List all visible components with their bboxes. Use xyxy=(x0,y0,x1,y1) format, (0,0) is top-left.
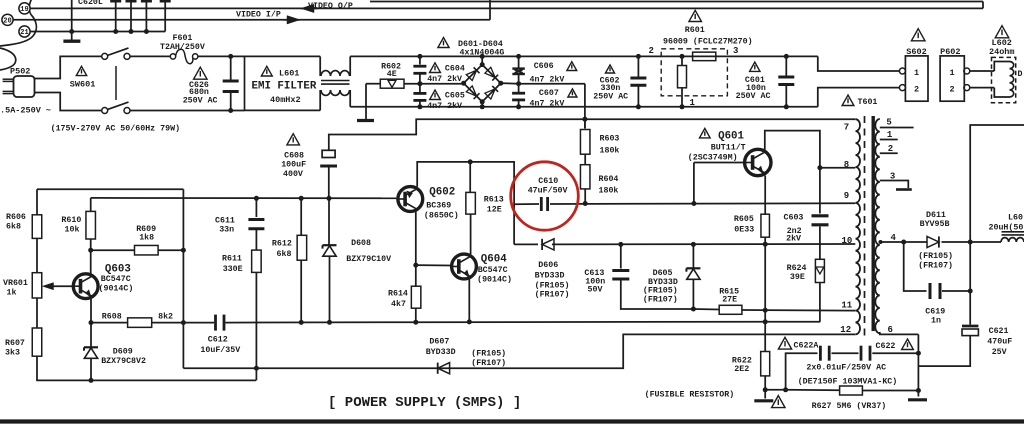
svg-text:C621: C621 xyxy=(989,327,1009,336)
svg-text:6k8: 6k8 xyxy=(277,249,292,259)
svg-text:(FR107): (FR107) xyxy=(471,358,506,368)
svg-text:6k8: 6k8 xyxy=(6,222,21,232)
svg-text:2: 2 xyxy=(949,85,954,95)
svg-text:R604: R604 xyxy=(599,175,619,184)
svg-text:4E: 4E xyxy=(387,70,397,79)
svg-text:40mHx2: 40mHx2 xyxy=(270,95,301,105)
svg-text:1k8: 1k8 xyxy=(139,233,154,243)
svg-text:27E: 27E xyxy=(722,295,737,304)
svg-text:EMI FILTER: EMI FILTER xyxy=(252,80,317,92)
svg-text:20uH(50: 20uH(50 xyxy=(989,222,1024,232)
svg-text:L601: L601 xyxy=(279,69,299,79)
svg-text:R605: R605 xyxy=(734,215,754,224)
svg-text:2: 2 xyxy=(649,46,654,56)
svg-text:Q602: Q602 xyxy=(429,186,455,198)
svg-text:180k: 180k xyxy=(600,146,620,156)
svg-text:C622: C622 xyxy=(876,342,896,351)
svg-text:(FR105): (FR105) xyxy=(918,251,953,261)
svg-text:BC547C: BC547C xyxy=(478,266,508,275)
svg-text:(FR105): (FR105) xyxy=(471,349,506,359)
svg-text:BZX79C10V: BZX79C10V xyxy=(346,255,391,264)
svg-text:(8650C): (8650C) xyxy=(424,211,459,221)
svg-text:330E: 330E xyxy=(223,265,243,274)
svg-text:C620L: C620L xyxy=(78,0,103,7)
svg-text:400V: 400V xyxy=(283,170,303,179)
svg-text:Q601: Q601 xyxy=(718,131,744,143)
svg-text:3k3: 3k3 xyxy=(5,348,20,358)
svg-text:BC369: BC369 xyxy=(426,202,451,211)
svg-text:250V AC: 250V AC xyxy=(183,96,218,105)
svg-text:2: 2 xyxy=(914,85,919,95)
svg-text:C606: C606 xyxy=(534,62,554,71)
svg-text:0E33: 0E33 xyxy=(734,226,754,235)
svg-text:21: 21 xyxy=(20,29,28,37)
svg-text:Q603: Q603 xyxy=(105,264,131,276)
svg-text:.5A-250V ~: .5A-250V ~ xyxy=(0,105,51,115)
svg-text:R624: R624 xyxy=(787,264,807,273)
svg-text:10: 10 xyxy=(842,236,853,246)
svg-text:[ POWER SUPPLY (SMPS) ]: [ POWER SUPPLY (SMPS) ] xyxy=(328,395,521,411)
svg-text:C611: C611 xyxy=(215,216,235,225)
svg-text:VR601: VR601 xyxy=(3,279,28,288)
svg-text:S602: S602 xyxy=(906,47,926,57)
svg-text:12E: 12E xyxy=(487,205,502,214)
svg-text:R607: R607 xyxy=(5,339,25,348)
svg-text:P602: P602 xyxy=(940,47,960,57)
svg-text:C612: C612 xyxy=(208,336,228,345)
svg-text:7: 7 xyxy=(844,123,849,133)
svg-text:Q604: Q604 xyxy=(481,254,507,266)
svg-text:R611: R611 xyxy=(222,255,242,264)
svg-text:D: D xyxy=(1018,70,1023,79)
svg-text:12: 12 xyxy=(840,325,851,335)
svg-text:D605: D605 xyxy=(653,269,673,278)
svg-text:F601: F601 xyxy=(173,34,193,43)
svg-text:10uF/35V: 10uF/35V xyxy=(200,345,240,355)
svg-text:2kV: 2kV xyxy=(786,233,801,243)
svg-text:L60: L60 xyxy=(1008,214,1023,223)
svg-text:(175V-270V AC 50/60Hz 79W): (175V-270V AC 50/60Hz 79W) xyxy=(51,123,180,133)
svg-text:BYV95B: BYV95B xyxy=(920,220,950,229)
svg-text:D608: D608 xyxy=(351,239,371,248)
svg-text:(FR107): (FR107) xyxy=(643,294,678,304)
svg-text:R601: R601 xyxy=(685,26,705,35)
svg-text:24ohm: 24ohm xyxy=(989,47,1015,57)
svg-text:BYD33D: BYD33D xyxy=(426,348,456,357)
svg-text:BUT11/T: BUT11/T xyxy=(711,143,746,153)
svg-text:100uF: 100uF xyxy=(281,161,306,170)
svg-text:C604: C604 xyxy=(445,64,465,73)
svg-text:C607: C607 xyxy=(539,89,559,98)
svg-text:1: 1 xyxy=(914,68,919,78)
svg-text:D609: D609 xyxy=(113,347,133,356)
svg-text:20: 20 xyxy=(3,17,11,25)
svg-text:250V AC: 250V AC xyxy=(593,92,628,101)
svg-text:BYD33D: BYD33D xyxy=(535,272,565,281)
svg-text:R627 5M6 (VR37): R627 5M6 (VR37) xyxy=(812,401,887,411)
svg-text:R622: R622 xyxy=(732,356,752,365)
svg-text:5: 5 xyxy=(886,118,891,128)
svg-text:BC547C: BC547C xyxy=(101,275,131,284)
svg-text:R606: R606 xyxy=(6,213,26,222)
svg-text:6: 6 xyxy=(888,325,893,335)
svg-text:3: 3 xyxy=(733,46,738,56)
svg-text:C605: C605 xyxy=(445,92,465,101)
svg-text:R610: R610 xyxy=(61,216,81,225)
svg-text:9: 9 xyxy=(844,191,849,201)
svg-text:C603: C603 xyxy=(784,214,804,223)
svg-text:39E: 39E xyxy=(790,273,805,282)
svg-text:(FR105): (FR105) xyxy=(535,280,570,290)
svg-text:1n: 1n xyxy=(931,317,941,326)
svg-text:(9014C): (9014C) xyxy=(477,275,512,285)
svg-text:47uF/50V: 47uF/50V xyxy=(528,185,568,195)
svg-text:D606: D606 xyxy=(538,261,558,270)
svg-text:C608: C608 xyxy=(284,151,304,160)
svg-text:D607: D607 xyxy=(429,337,449,346)
svg-text:11: 11 xyxy=(841,300,852,310)
svg-text:P502: P502 xyxy=(10,67,30,77)
svg-text:(FR107): (FR107) xyxy=(918,261,953,271)
svg-text:4n7 2kV: 4n7 2kV xyxy=(427,101,462,111)
svg-text:D611: D611 xyxy=(926,211,946,220)
svg-text:10k: 10k xyxy=(65,225,80,235)
svg-text:1: 1 xyxy=(690,98,696,108)
svg-text:2x0.01uF/250V AC: 2x0.01uF/250V AC xyxy=(806,363,886,373)
svg-text:C610: C610 xyxy=(538,177,558,186)
svg-text:470uF: 470uF xyxy=(987,338,1012,347)
svg-text:8: 8 xyxy=(844,160,849,170)
svg-text:(2SC3749M): (2SC3749M) xyxy=(688,153,738,163)
svg-text:50V: 50V xyxy=(588,286,603,295)
svg-text:1k: 1k xyxy=(7,288,17,298)
svg-text:C622A: C622A xyxy=(794,342,819,351)
svg-text:BZX79C8V2: BZX79C8V2 xyxy=(101,357,146,366)
svg-text:R612: R612 xyxy=(272,240,292,249)
svg-text:R603: R603 xyxy=(600,135,620,144)
svg-text:4n7 2kV: 4n7 2kV xyxy=(427,74,462,84)
svg-text:(FR105): (FR105) xyxy=(643,286,678,296)
svg-text:8k2: 8k2 xyxy=(158,311,173,321)
svg-text:(FR107): (FR107) xyxy=(535,290,570,300)
svg-text:R614: R614 xyxy=(388,290,408,299)
svg-text:D601-D604: D601-D604 xyxy=(458,40,503,49)
svg-text:VIDEO I/P: VIDEO I/P xyxy=(236,10,281,20)
svg-text:(9014C): (9014C) xyxy=(99,284,134,294)
svg-text:250V AC: 250V AC xyxy=(736,92,771,101)
svg-text:19: 19 xyxy=(20,6,28,14)
svg-text:(FUSIBLE RESISTOR): (FUSIBLE RESISTOR) xyxy=(645,389,735,399)
svg-text:96009 (FCLC27M270): 96009 (FCLC27M270) xyxy=(663,37,753,47)
svg-text:R613: R613 xyxy=(484,196,504,205)
svg-text:T2AH/250V: T2AH/250V xyxy=(160,42,205,52)
svg-text:4k7: 4k7 xyxy=(391,299,406,309)
svg-text:C619: C619 xyxy=(925,308,945,317)
svg-text:R608: R608 xyxy=(102,312,122,321)
svg-text:25V: 25V xyxy=(992,348,1007,357)
svg-text:T601: T601 xyxy=(858,98,878,107)
svg-text:SW601: SW601 xyxy=(70,80,96,90)
svg-text:VIDEO O/P: VIDEO O/P xyxy=(308,1,353,11)
svg-text:1: 1 xyxy=(949,68,954,78)
svg-text:4n7 2kV: 4n7 2kV xyxy=(530,98,565,108)
svg-text:(DE7150F 103MVA1-KC): (DE7150F 103MVA1-KC) xyxy=(798,377,898,387)
svg-text:180k: 180k xyxy=(599,186,619,196)
svg-text:33n: 33n xyxy=(219,226,234,235)
svg-text:2E2: 2E2 xyxy=(734,365,749,374)
